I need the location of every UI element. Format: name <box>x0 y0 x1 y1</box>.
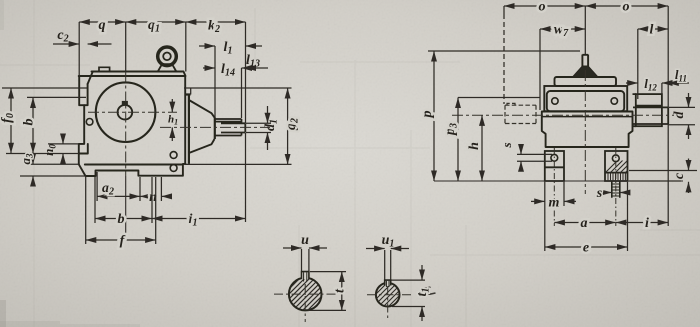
dim n0 <box>48 134 79 163</box>
hole lower right 1 <box>170 152 177 159</box>
svg-text:p: p <box>420 111 435 119</box>
housing main body <box>542 112 633 148</box>
output shaft <box>221 123 245 132</box>
dim p <box>428 51 580 181</box>
section shaft 1 keyway <box>302 272 309 279</box>
svg-text:l: l <box>650 23 654 38</box>
dim b horizontal <box>95 177 152 223</box>
left foot <box>545 151 564 181</box>
section 2 centrelines <box>367 286 414 320</box>
dim w7 <box>540 29 585 110</box>
svg-text:b: b <box>22 119 37 126</box>
dim e <box>545 182 628 251</box>
dim a <box>554 222 616 224</box>
top tab <box>99 67 110 71</box>
svg-text:a: a <box>581 216 588 231</box>
hole left wall <box>86 119 93 126</box>
bearing cover <box>215 119 242 136</box>
dim p3 <box>458 98 540 182</box>
dim i <box>616 124 668 226</box>
dim d1 <box>246 106 271 150</box>
dim t <box>308 272 346 311</box>
dim l12 <box>626 83 673 94</box>
flange joint line <box>542 116 633 118</box>
right bearing cover <box>633 94 662 126</box>
housing cap <box>555 77 617 86</box>
dim u1 <box>366 249 409 280</box>
svg-text:m: m <box>549 196 560 211</box>
cover plate <box>547 91 624 112</box>
dim a2 <box>97 172 140 201</box>
left foot bolt centreline <box>553 148 555 226</box>
dim c2 <box>53 43 112 45</box>
right foot bolt centreline <box>615 148 617 226</box>
dim s bottom <box>603 192 630 194</box>
dim o o <box>504 6 668 107</box>
housing upper body <box>544 86 627 111</box>
svg-text:d: d <box>672 111 687 119</box>
right foot sectioned <box>605 151 628 181</box>
bore keyway notch <box>122 101 128 106</box>
vertical centreline right view <box>584 70 586 194</box>
section shaft 1 circle <box>289 278 322 311</box>
right foot hatch <box>598 148 630 214</box>
edge smudges <box>0 0 140 327</box>
dim i1 <box>152 218 246 220</box>
svg-text:s: s <box>596 186 603 201</box>
dim c <box>629 159 697 194</box>
dim h <box>481 115 483 181</box>
dim l1 <box>199 46 262 118</box>
dim g2 <box>184 88 292 164</box>
dim f <box>86 177 156 244</box>
dim q q1 k2 line <box>79 22 245 222</box>
section shaft 2 circle <box>376 283 400 307</box>
horizontal axis right view <box>452 114 674 116</box>
output axis centreline <box>160 126 270 128</box>
vent plug <box>573 55 599 78</box>
section 1 centrelines <box>274 284 336 322</box>
svg-text:h: h <box>467 142 482 150</box>
dim f0 <box>2 88 87 154</box>
svg-text:e: e <box>583 241 589 256</box>
housing outline <box>79 72 186 177</box>
dim m <box>531 182 576 251</box>
dim b vertical <box>27 97 86 153</box>
dim h1 <box>171 99 173 141</box>
dim d <box>669 93 696 139</box>
big bore circle <box>96 82 156 142</box>
hidden input stub <box>505 103 536 123</box>
baseline extension <box>434 180 683 182</box>
vertical centreline <box>125 72 127 177</box>
svg-text:o: o <box>623 0 630 15</box>
dim s left <box>517 146 552 170</box>
cover bolt left <box>552 98 558 104</box>
cover bolt right <box>611 98 617 104</box>
left foot bolt hole <box>551 154 558 161</box>
dim u <box>283 248 327 271</box>
dim l <box>638 29 668 99</box>
stray ink flecks <box>424 287 436 295</box>
dim n <box>140 177 172 201</box>
right foot bolt hole <box>612 155 619 162</box>
bell housing <box>185 95 215 164</box>
shaft hole circle <box>118 105 133 120</box>
svg-text:o: o <box>539 0 546 15</box>
svg-text:b: b <box>118 212 125 227</box>
anchor bolt thread lines <box>608 173 625 180</box>
svg-text:q: q <box>99 18 106 33</box>
dim a3 <box>20 155 86 186</box>
dim l14 <box>203 68 251 118</box>
dim l11 <box>668 82 689 84</box>
section shaft 2 keyway <box>385 280 391 285</box>
right output shaft <box>633 107 668 124</box>
svg-text:c: c <box>672 172 687 179</box>
main axis centreline <box>88 111 177 113</box>
hole lower right 2 <box>170 165 177 172</box>
dim t1 <box>392 265 426 321</box>
svg-text:i: i <box>645 216 649 231</box>
anchor bolt stem <box>612 181 620 198</box>
svg-text:s: s <box>499 142 514 148</box>
eyebolt <box>158 47 177 72</box>
dim l13 <box>246 67 269 69</box>
svg-text:u: u <box>301 233 309 248</box>
